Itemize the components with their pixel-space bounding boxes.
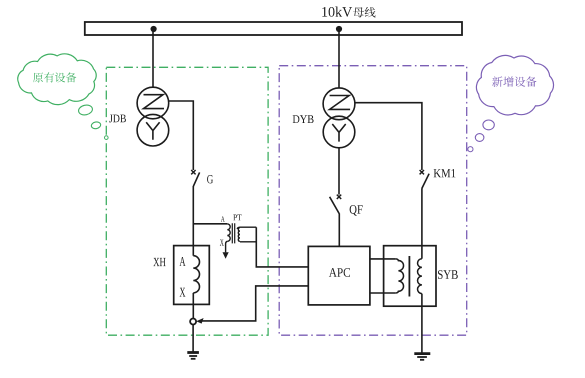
- wire bus to JDB: [152, 31, 154, 87]
- transformer box SYB: [384, 246, 458, 307]
- SYB secondary winding: [418, 259, 422, 294]
- voltage transformer PT: [220, 215, 256, 259]
- cloud bubble 2 (left): [91, 121, 102, 129]
- SYB primary winding: [396, 259, 404, 293]
- 10kV busbar: [85, 7, 462, 36]
- wire JDB to switch G: [169, 101, 194, 170]
- wire DYB to QF: [338, 148, 340, 195]
- wire branch to PT primary: [193, 223, 227, 225]
- new-equipment dashed box (purple): [279, 66, 467, 336]
- wire DYB to KM1: [355, 103, 422, 170]
- wire PT secondary to APC input: [256, 227, 308, 267]
- cloud bubble 1 (right): [483, 120, 494, 130]
- ground (right): [414, 354, 430, 360]
- junction dot on bus (right feeder): [336, 26, 342, 32]
- transformer DYB: [293, 88, 355, 148]
- wire XH to node: [192, 293, 194, 319]
- transformer JDB: [109, 87, 169, 146]
- wire bus to DYB: [338, 31, 340, 88]
- SYB core: [408, 256, 410, 297]
- cloud bubble 1 (left): [78, 104, 94, 116]
- XH series coil: [193, 256, 199, 293]
- wire QF to APC: [338, 213, 340, 246]
- wire node to ground: [192, 324, 194, 352]
- cloud bubble 3 (left): [105, 136, 109, 140]
- junction dot on bus (left feeder): [151, 26, 157, 32]
- filter box XH: [153, 246, 209, 305]
- wire SYB to ground: [421, 294, 423, 353]
- cloud bubble 2 (right): [475, 134, 484, 142]
- breaker QF: [330, 195, 363, 216]
- contactor KM1: [420, 169, 456, 188]
- cloud callout 新增设备: [476, 55, 553, 114]
- cloud callout 原有设备: [18, 54, 96, 105]
- controller box APC: [308, 246, 370, 305]
- wire APC to node with arrow: [202, 286, 308, 321]
- wire APC to SYB (bottom): [370, 292, 396, 294]
- disconnector G: [191, 170, 213, 186]
- wire G down to XH coil: [192, 186, 194, 256]
- ground (left): [187, 353, 199, 359]
- arrowhead at node: [196, 318, 203, 324]
- existing-equipment dashed box (green): [106, 67, 268, 335]
- node circle (clamp point): [190, 319, 196, 325]
- wire KM1 to SYB winding: [421, 188, 423, 259]
- wire APC to SYB (top): [370, 258, 396, 260]
- cloud bubble 3 (right): [468, 147, 473, 152]
